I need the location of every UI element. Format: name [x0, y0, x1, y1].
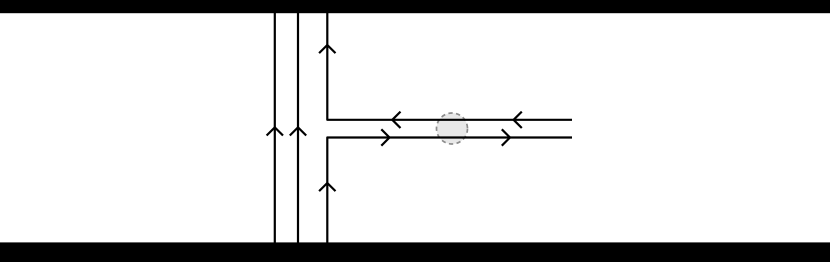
wire lane B arrow up: [319, 183, 335, 191]
node ego (dashed circle): [437, 113, 468, 144]
wire lane B path (north then east): [327, 138, 572, 244]
top black bar: [0, 0, 830, 13]
wire lane A arrow left 2: [514, 112, 522, 128]
wire lane L1 vertical: [274, 13, 276, 243]
wire lane A path (west then north): [327, 13, 572, 120]
wire lane A arrow up: [319, 45, 335, 53]
wire lane L2 arrow: [290, 127, 306, 135]
bottom black bar: [0, 242, 830, 262]
wire lane L1 arrow: [267, 127, 283, 135]
wire lane L2 vertical: [297, 13, 299, 243]
wire lane B arrow right 1: [381, 129, 389, 145]
wire lane A arrow left 1: [392, 112, 400, 128]
wire lane B arrow right 2: [502, 129, 510, 145]
